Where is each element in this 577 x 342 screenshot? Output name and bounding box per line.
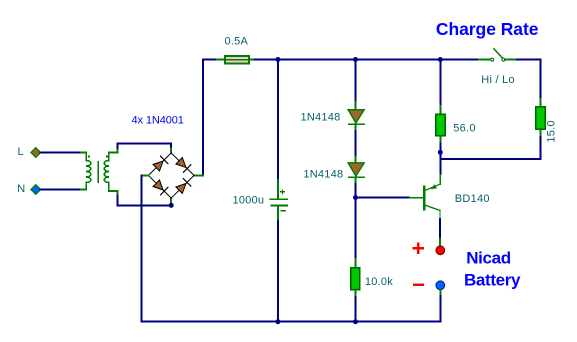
wire: bridge bottom vertex pin (170, 198, 172, 205)
svg-text:Nicad: Nicad (466, 248, 511, 267)
node: rail capacitor junction (275, 319, 280, 324)
svg-text:0.5A: 0.5A (225, 36, 249, 48)
transformer T1 secondary phase dot (106, 156, 108, 158)
svg-text:Battery: Battery (464, 270, 521, 289)
capacitor C1 minus sign (281, 210, 285, 212)
wire: L to transformer primary (41, 152, 81, 154)
fuse F1 0.5A body (225, 56, 249, 64)
node: bridge bottom junction (169, 203, 174, 208)
wire: top rail from bridge to fuse (203, 59, 217, 61)
wire: secondary bottom to bridge bottom node (117, 196, 171, 205)
wire: collector vertical (439, 210, 441, 219)
transistor Q1 collector lead (425, 205, 440, 210)
wire: secondary top to bridge top vertex (117, 143, 171, 148)
svg-text:4x 1N4001: 4x 1N4001 (132, 114, 184, 126)
terminal battery plus (436, 246, 445, 255)
terminal battery minus (436, 281, 445, 290)
wire: bottom rail (141, 321, 440, 323)
bridge rectifier frame (148, 153, 194, 198)
wire: resistor R3 bottom pin (355, 290, 357, 297)
svg-text:10.0k: 10.0k (365, 276, 393, 288)
wire: left vertical from top rail to bridge right vertex (202, 60, 204, 176)
wire: primary bottom pin (81, 189, 86, 191)
wire: resistor R3 to rail (355, 297, 357, 322)
wire: capacitor bottom pin (277, 206, 279, 221)
switch S1 lever (494, 49, 504, 59)
wire: bridge right vertex pin (194, 174, 203, 176)
transistor Q1 emitter arrow (431, 184, 437, 189)
wire: diode branch upper lead (355, 60, 357, 103)
diode D6 1N4148 (348, 163, 364, 177)
wire: top rail fuse to switch (255, 59, 480, 61)
bridge diode D4 (bottom-right edge) (176, 179, 191, 194)
bridge diode D1 (left-top edge) (153, 156, 168, 171)
wire: battery minus to rail (439, 296, 441, 322)
wire: D5 cathode to D6 anode (355, 124, 357, 163)
label minus (414, 283, 422, 286)
wire: base wire from node to transistor (356, 197, 410, 199)
wire: D6 cathode to base node (355, 177, 357, 184)
label plus (414, 244, 423, 253)
node: rail 10.0k junction (353, 319, 358, 324)
svg-text:N: N (17, 183, 25, 195)
wire: capacitor top pin (277, 180, 279, 199)
wire: resistor R2 top pin (540, 99, 542, 107)
wire: primary top pin (81, 152, 86, 154)
wire: switch to 15 ohm branch (517, 60, 541, 100)
svg-text:Hi / Lo: Hi / Lo (481, 74, 515, 86)
wire: R1 to emitter (439, 144, 441, 174)
wire: capacitor top lead (277, 60, 279, 181)
wire: diode D5 anode pin (355, 102, 357, 110)
terminal N (31, 185, 41, 195)
wire: battery minus pin (439, 289, 441, 296)
wire: bridge left vertex pin (141, 174, 148, 176)
wire: fuse right pin (249, 59, 255, 61)
wire: secondary top pin (109, 148, 118, 153)
wire: transistor base pin (409, 197, 423, 199)
node: top rail diode branch junction (353, 57, 358, 62)
transistor Q1 BD140 base bar (423, 187, 426, 210)
switch S1 right contact (502, 58, 505, 61)
node: top rail charge branch junction (438, 57, 443, 62)
bridge diode D3 (left-bottom edge) (153, 180, 168, 195)
wire: emitter pin vertical (439, 175, 441, 185)
node: emitter junction (438, 150, 443, 155)
wire: bridge top vertex pin (170, 149, 172, 154)
bridge diode D2 (top-right edge) (176, 157, 191, 172)
resistor R2 15.0 body (536, 107, 546, 129)
terminal L (31, 148, 41, 158)
switch S1 left contact (491, 58, 494, 61)
svg-text:L: L (18, 146, 24, 158)
wire: inter-diode navy segment (355, 131, 357, 155)
diode D5 1N4148 (348, 110, 364, 124)
node: top rail capacitor junction (275, 57, 280, 62)
svg-text:1N4148: 1N4148 (303, 168, 343, 180)
transformer T1 primary winding (86, 153, 91, 190)
svg-text:Charge Rate: Charge Rate (436, 19, 539, 39)
transistor Q1 emitter lead (425, 184, 440, 190)
wire: left vertical down to bottom rail (140, 175, 142, 321)
resistor R3 10.0k body (351, 268, 360, 290)
capacitor C1 plus sign (281, 190, 285, 194)
wire: resistor R1 bottom pin (439, 136, 441, 144)
svg-text:BD140: BD140 (455, 193, 490, 205)
wire: resistor R1 top pin (439, 106, 441, 114)
wire: N to transformer primary (41, 189, 81, 191)
capacitor C1 bottom plate (271, 205, 287, 207)
wire: secondary bottom pin (109, 191, 118, 196)
wire: capacitor bottom to rail (277, 221, 279, 322)
capacitor C1 1000u top plate (270, 198, 287, 200)
wire: resistor R3 top pin (355, 259, 357, 268)
wire: 56 ohm upper lead (439, 60, 441, 107)
svg-text:1000u: 1000u (232, 194, 264, 206)
svg-text:1N4148: 1N4148 (300, 112, 340, 124)
transformer T1 core (97, 162, 99, 182)
node: base junction (353, 195, 358, 200)
wire: battery plus pin (439, 239, 441, 246)
fuse F1 center line (225, 59, 249, 61)
wire: base node down to resistor 10.0k (355, 198, 357, 260)
svg-text:15.0: 15.0 (546, 120, 558, 142)
resistor R1 56.0 body (436, 114, 446, 136)
wire: switch right pin (505, 59, 517, 61)
wire: R2 bottom to emitter column (440, 137, 540, 159)
wire: resistor R2 bottom pin (540, 129, 542, 137)
transformer T1 secondary winding (104, 153, 109, 192)
wire: fuse left pin (217, 59, 225, 61)
svg-text:56.0: 56.0 (453, 123, 475, 135)
transformer T1 primary phase dot (88, 156, 90, 158)
wire: switch left pin (479, 59, 491, 61)
